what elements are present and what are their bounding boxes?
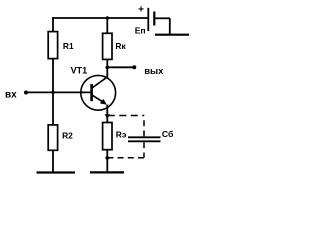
wire R2 bottom lead <box>52 150 54 171</box>
terminal output dot <box>132 65 136 69</box>
svg-text:вых: вых <box>144 66 164 77</box>
svg-text:R2: R2 <box>62 130 73 140</box>
resistor R1 <box>48 32 57 59</box>
node collector output junction <box>106 66 110 70</box>
svg-text:вх: вх <box>5 89 17 100</box>
node dashed box bottom junction <box>105 156 109 160</box>
transistor VT1 <box>81 75 116 110</box>
svg-text:Eп: Eп <box>135 25 146 35</box>
wire Rk bottom lead <box>106 59 108 67</box>
svg-text:VT1: VT1 <box>71 65 88 75</box>
wire output tap <box>107 66 133 68</box>
wire R1 top lead <box>52 17 54 32</box>
emitter current arrowhead <box>105 114 110 119</box>
resistor Rk <box>103 33 112 59</box>
resistor R2 <box>48 125 57 150</box>
capacitor Cb <box>128 137 161 141</box>
node base divider junction <box>51 91 54 94</box>
svg-text:+: + <box>138 4 144 15</box>
dashed box around Re and Cb <box>108 116 144 158</box>
terminal input dot <box>24 91 28 95</box>
node supply junction at Rk <box>106 16 109 19</box>
wire R2 top lead <box>52 92 54 125</box>
ground bar left segment of common rail <box>37 171 76 173</box>
svg-text:Сб: Сб <box>162 129 174 139</box>
battery Ep <box>148 8 189 35</box>
wire R1 bottom lead <box>52 59 54 93</box>
wire Rk top lead <box>106 17 108 33</box>
wire top supply rail <box>52 17 147 19</box>
resistor Re <box>103 123 112 150</box>
svg-text:Rэ: Rэ <box>116 130 127 140</box>
wire Re bottom lead <box>106 150 108 172</box>
svg-text:Rк: Rк <box>115 41 126 51</box>
wire emitter lead <box>106 105 108 123</box>
ground bar right segment of common rail <box>90 171 124 173</box>
wire collector lead <box>106 67 108 77</box>
wire base lead <box>27 91 92 93</box>
svg-text:R1: R1 <box>63 41 74 51</box>
